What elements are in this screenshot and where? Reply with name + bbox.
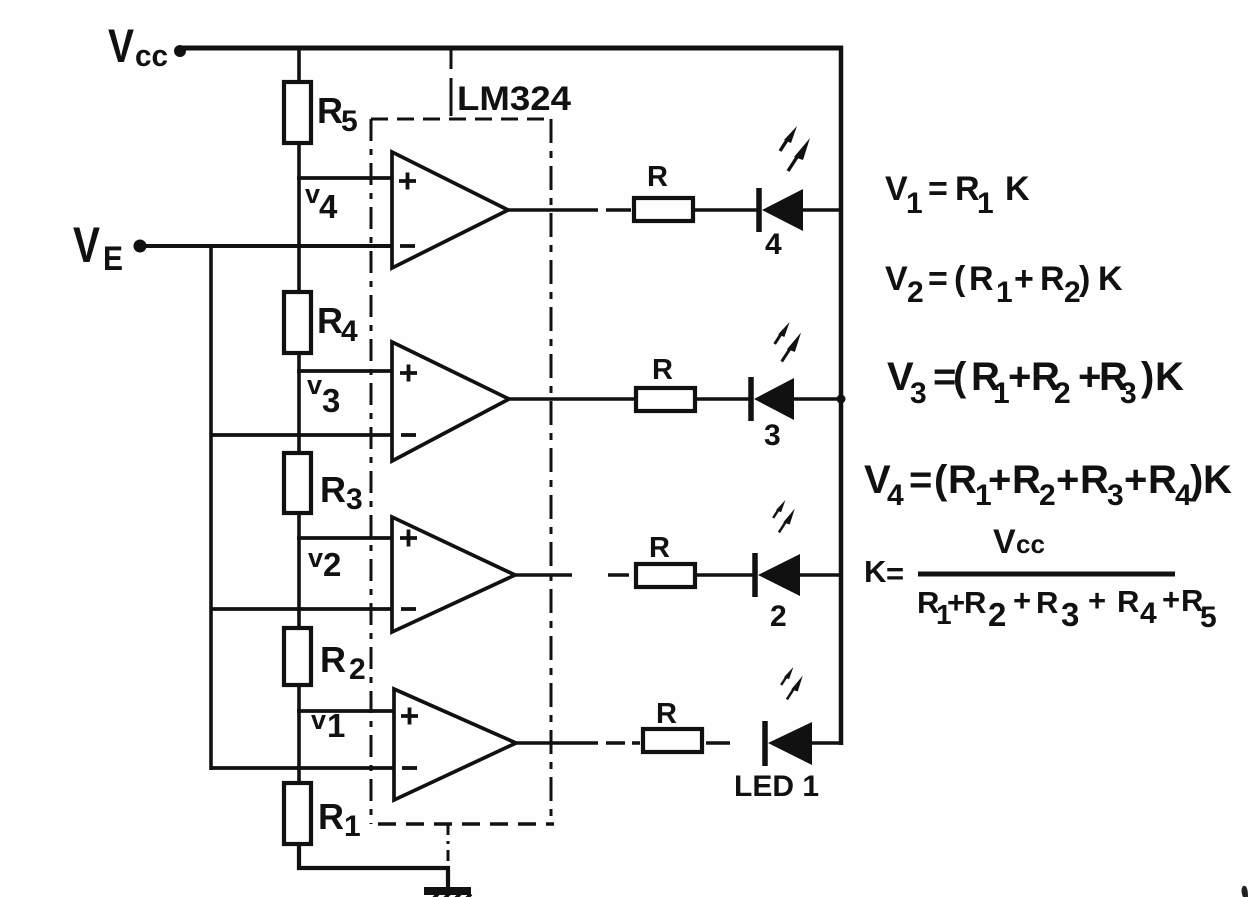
node v2 tap wire bbox=[297, 536, 392, 540]
LM324 dashed box right edge bbox=[550, 119, 553, 824]
node v2 label bbox=[308, 543, 341, 583]
wire op-amp4 output bbox=[516, 741, 640, 745]
op-amp U1D bbox=[394, 689, 516, 800]
svg-text:V2=(R1+R2)K: V2=(R1+R2)K bbox=[885, 260, 1123, 309]
svg-text:R: R bbox=[320, 469, 346, 510]
svg-text:v: v bbox=[305, 179, 320, 209]
wire R to LED2 bbox=[697, 573, 754, 577]
LED3 bbox=[751, 377, 846, 421]
ground bbox=[424, 887, 471, 897]
wire minus row op-amp2 bbox=[211, 433, 393, 437]
wire minus row op-amp4 bbox=[211, 766, 394, 770]
resistor R1 bbox=[284, 783, 361, 844]
svg-text:v: v bbox=[307, 370, 322, 400]
LED4 light rays bbox=[780, 126, 810, 171]
svg-text:2: 2 bbox=[323, 546, 341, 583]
LED3 light rays bbox=[775, 322, 801, 362]
LM324 dashed box top edge bbox=[371, 118, 551, 121]
wire R to LED1 dashed bbox=[706, 741, 730, 745]
resistor R3 bbox=[284, 453, 363, 516]
svg-text:5: 5 bbox=[341, 105, 358, 138]
svg-text:R: R bbox=[320, 639, 346, 680]
svg-text:3: 3 bbox=[764, 419, 781, 452]
Vcc terminal dot bbox=[174, 45, 186, 57]
wire op-amp1 output bbox=[508, 208, 631, 212]
LED4 bbox=[759, 188, 841, 232]
wire right LED bus bbox=[839, 46, 844, 745]
svg-text:V1=R1K: V1=R1K bbox=[885, 170, 1030, 220]
wire R1 to ground run bbox=[299, 844, 448, 889]
svg-text:E: E bbox=[103, 240, 123, 278]
svg-text:4: 4 bbox=[319, 188, 338, 225]
node v3 tap wire bbox=[297, 369, 391, 373]
svg-text:V: V bbox=[108, 19, 135, 72]
LM324 ground stem dash bbox=[447, 824, 450, 866]
LM324 Vcc stem bbox=[450, 50, 453, 116]
svg-text:R: R bbox=[656, 698, 677, 730]
wire VE vertical drop bbox=[209, 246, 213, 770]
svg-text:2: 2 bbox=[349, 653, 366, 686]
node v3 label bbox=[307, 370, 340, 419]
VE terminal label bbox=[73, 217, 123, 278]
wire R5 to R4 chain bbox=[297, 143, 301, 292]
LM324 dashed box bottom edge bbox=[378, 822, 554, 825]
wire R4 to R3 chain bbox=[297, 353, 301, 453]
resistor R5 bbox=[284, 82, 358, 143]
LED1 light rays bbox=[781, 667, 803, 699]
svg-text:v: v bbox=[308, 543, 323, 573]
wire Vcc to R5 bbox=[297, 49, 301, 83]
svg-text:R1+R2+R3+R4+R5: R1+R2+R3+R4+R5 bbox=[917, 582, 1217, 634]
svg-text:V3=(R1+R2+R3)K: V3=(R1+R2+R3)K bbox=[887, 355, 1184, 410]
svg-text:R: R bbox=[652, 354, 673, 386]
svg-text:V4=(R1+R2+R3+R4)K: V4=(R1+R2+R3+R4)K bbox=[864, 458, 1232, 512]
formula fraction bar bbox=[918, 572, 1175, 577]
wire op-amp3 output bbox=[515, 573, 629, 577]
svg-text:1: 1 bbox=[327, 707, 345, 744]
wire R2 to R1 chain bbox=[297, 685, 301, 783]
svg-text:K=: K= bbox=[864, 554, 904, 591]
node v1 tap wire bbox=[297, 709, 394, 713]
node v1 label bbox=[311, 705, 345, 744]
resistor R row2 bbox=[636, 354, 695, 411]
Vcc terminal label bbox=[108, 19, 168, 73]
wire R3 to R2 chain bbox=[297, 513, 301, 628]
op-amp U1C bbox=[392, 517, 515, 632]
wire Vcc top rail bbox=[178, 46, 843, 51]
resistor R2 bbox=[284, 628, 366, 686]
svg-text:R: R bbox=[318, 796, 344, 837]
resistor R row4 bbox=[643, 698, 702, 752]
svg-text:4: 4 bbox=[341, 315, 358, 348]
LED2 bbox=[755, 553, 841, 597]
svg-text:R: R bbox=[649, 532, 670, 564]
op-amp U1B bbox=[392, 342, 509, 461]
svg-text:LM324: LM324 bbox=[457, 80, 571, 118]
svg-text:R: R bbox=[317, 300, 343, 341]
svg-text:2: 2 bbox=[770, 600, 787, 633]
svg-text:cc: cc bbox=[135, 38, 168, 73]
svg-text:1: 1 bbox=[344, 810, 361, 843]
svg-text:R: R bbox=[647, 161, 668, 193]
node v4 tap wire bbox=[297, 176, 391, 180]
node v4 label bbox=[305, 179, 338, 225]
LED2 light rays bbox=[773, 500, 795, 532]
resistor R row3 bbox=[636, 532, 695, 587]
page corner mark bbox=[1242, 886, 1248, 897]
wire VE row to op-amp minus bbox=[140, 244, 392, 248]
wire op-amp2 output bbox=[509, 397, 634, 401]
svg-text:3: 3 bbox=[346, 483, 363, 516]
svg-text:LED 1: LED 1 bbox=[734, 770, 819, 803]
op-amp U1A bbox=[392, 152, 508, 268]
resistor R4 bbox=[284, 292, 358, 353]
svg-text:V: V bbox=[73, 217, 101, 273]
svg-text:4: 4 bbox=[765, 228, 782, 261]
svg-text:v: v bbox=[311, 705, 326, 735]
svg-text:3: 3 bbox=[322, 382, 340, 419]
svg-text:Vcc: Vcc bbox=[993, 523, 1045, 561]
LM324 dashed box left edge bbox=[370, 119, 373, 824]
svg-text:R: R bbox=[317, 90, 343, 131]
LED1 bbox=[765, 721, 841, 766]
wire R to LED4 bbox=[695, 208, 758, 212]
VE terminal dot bbox=[134, 240, 147, 253]
resistor R row1 bbox=[634, 161, 693, 221]
wire minus row op-amp3 bbox=[211, 607, 393, 611]
wire R to LED3 bbox=[697, 397, 750, 401]
